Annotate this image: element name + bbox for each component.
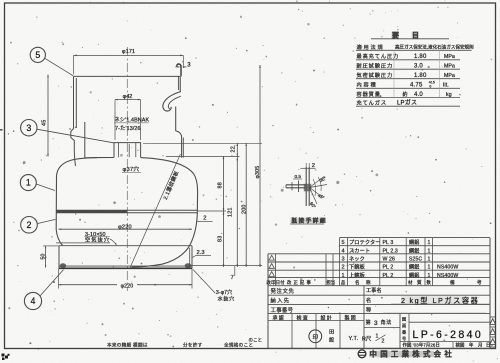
protector right lower wall and foot <box>176 107 182 158</box>
svg-text:83: 83 <box>218 236 224 242</box>
svg-text:PL 3: PL 3 <box>383 240 394 246</box>
svg-text:1: 1 <box>428 273 431 279</box>
svg-text:角法: 角法 <box>381 318 392 326</box>
svg-text:数: 数 <box>427 279 432 286</box>
svg-text:lit.: lit. <box>443 83 449 89</box>
label 2:1 head note (rotated) <box>130 154 181 269</box>
right edge triangle strip <box>490 317 496 347</box>
svg-text:LPガス: LPガス <box>397 99 417 107</box>
tank lower head (part 2) <box>132 214 198 267</box>
skirt bottom edge <box>59 265 192 267</box>
svg-text:φ220: φ220 <box>118 224 132 230</box>
svg-text:ネック: ネック <box>349 256 365 263</box>
svg-text:水抜穴: 水抜穴 <box>218 294 235 302</box>
protector foot inner lines <box>85 122 97 158</box>
svg-text:納入先: 納入先 <box>271 296 291 304</box>
svg-text:2: 2 <box>27 220 32 230</box>
svg-text:88: 88 <box>217 182 223 188</box>
svg-text:0.5: 0.5 <box>295 174 302 179</box>
svg-text:7: 7 <box>231 275 234 281</box>
svg-text:工事名: 工事名 <box>366 287 382 294</box>
svg-text:NS400W: NS400W <box>437 265 458 271</box>
stamp circle <box>309 330 322 343</box>
svg-text:要: 要 <box>392 31 399 40</box>
dimension φ305 (x=260) <box>259 65 261 267</box>
balloon 2 <box>21 217 38 234</box>
svg-text:中国工業株式会社: 中国工業株式会社 <box>370 350 456 359</box>
svg-text:kg: kg <box>446 92 452 98</box>
svg-text:約: 約 <box>403 91 408 98</box>
vertical dimension 45 left <box>47 75 49 157</box>
svg-text:称: 称 <box>366 305 371 313</box>
dimension φ220 mid <box>59 228 193 230</box>
svg-text:気密試験圧力: 気密試験圧力 <box>357 71 394 79</box>
protector (part 5) outline <box>74 75 181 77</box>
svg-text:NS400W: NS400W <box>437 273 458 279</box>
centerline of container <box>126 47 128 291</box>
svg-text:1: 1 <box>26 178 31 188</box>
svg-text:PL 2: PL 2 <box>383 273 394 279</box>
svg-text:2: 2 <box>382 339 385 345</box>
svg-text:発注文先: 発注文先 <box>271 287 295 295</box>
svg-text:2: 2 <box>312 163 315 169</box>
dimension φ220 bottom <box>58 269 60 289</box>
svg-text:4: 4 <box>342 248 345 254</box>
weld detail horizontal plate <box>286 184 306 186</box>
svg-text:最高充てん圧力: 最高充てん圧力 <box>357 52 400 60</box>
weld detail vertical plate <box>305 167 307 206</box>
svg-text:本来の精細 模糊は: 本来の精細 模糊は <box>107 341 148 348</box>
right side extension lines <box>143 142 262 144</box>
svg-text:高圧ガス保安法,液化石油ガス保安規則: 高圧ガス保安法,液化石油ガス保安規則 <box>395 44 474 51</box>
svg-text:印: 印 <box>312 334 318 341</box>
balloon 5 <box>30 47 45 62</box>
skirt weld corner right / drain hole <box>185 263 192 268</box>
weld fillet <box>304 184 311 192</box>
svg-text:鋼鈱: 鋼鈱 <box>409 239 419 246</box>
svg-text:4.0: 4.0 <box>414 92 423 98</box>
balloon 4 <box>24 292 41 309</box>
svg-text:備: 備 <box>450 279 455 286</box>
svg-text:下鏡板: 下鏡板 <box>349 263 366 271</box>
svg-text:スカート: スカート <box>349 247 370 254</box>
svg-text:φ220: φ220 <box>121 284 134 290</box>
svg-text:1: 1 <box>428 265 431 271</box>
svg-text:50: 50 <box>40 254 46 260</box>
svg-text:5: 5 <box>342 240 345 246</box>
svg-text:プロテクター: プロテクター <box>349 238 381 246</box>
svg-text:4: 4 <box>31 296 36 306</box>
svg-text:質: 質 <box>417 279 422 286</box>
svg-text:内容積: 内容積 <box>357 81 378 89</box>
svg-text:45: 45 <box>42 120 48 126</box>
svg-text:22: 22 <box>231 146 237 152</box>
protector handle hook <box>163 92 181 112</box>
tank right wall <box>196 191 198 214</box>
svg-text:2: 2 <box>203 216 206 222</box>
svg-text:7-た'13/26: 7-た'13/26 <box>115 125 141 132</box>
dimension 200 (x=246) <box>245 143 247 267</box>
svg-text:材: 材 <box>408 279 413 285</box>
svg-text:容器質量: 容器質量 <box>357 90 381 98</box>
svg-text:名: 名 <box>355 279 360 286</box>
svg-text:W 26: W 26 <box>383 257 396 263</box>
skirt (part 4) <box>59 245 192 247</box>
svg-text:充てんガス: 充てんガス <box>357 99 387 107</box>
balloon 1 <box>20 175 36 191</box>
girth weld seam <box>56 209 197 211</box>
svg-text:適用法規: 適用法規 <box>357 43 385 51</box>
label 3-φ7 drain holes <box>193 270 215 294</box>
svg-text:LP-6-2840: LP-6-2840 <box>413 329 484 341</box>
svg-text:1: 1 <box>342 273 345 279</box>
protector right wall and rolled lip <box>177 64 181 76</box>
svg-text:耐圧試験圧力: 耐圧試験圧力 <box>357 62 394 70</box>
svg-text:年: 年 <box>469 342 474 349</box>
dimension 22 and 121 (x=237) <box>236 143 238 267</box>
svg-text:PL 2: PL 2 <box>383 265 394 271</box>
svg-text:3: 3 <box>374 320 378 327</box>
svg-text:φ42: φ42 <box>123 94 133 100</box>
svg-text:1.80: 1.80 <box>414 73 427 79</box>
tank left wall <box>56 176 62 246</box>
corner mark bottom left <box>2 354 10 361</box>
svg-text:検査: 検査 <box>297 314 309 321</box>
weld detail leaders and angles <box>310 177 325 188</box>
svg-text:3.0: 3.0 <box>414 64 423 70</box>
svg-text:MPa: MPa <box>444 64 455 70</box>
weld detail label 胴接手詳細 <box>291 218 325 223</box>
svg-text:3: 3 <box>342 257 345 263</box>
svg-text:作図 '03年7月26日: 作図 '03年7月26日 <box>403 342 440 349</box>
title block and parts list grid <box>268 238 490 349</box>
company logo <box>358 350 366 358</box>
svg-text:1: 1 <box>428 248 431 254</box>
svg-text:第: 第 <box>366 318 371 326</box>
svg-text:5: 5 <box>35 50 40 60</box>
svg-text:改正記事: 改正記事 <box>287 279 313 286</box>
svg-text:2: 2 <box>342 265 345 271</box>
svg-text:4.75: 4.75 <box>410 83 423 89</box>
dimension 50 skirt height <box>45 246 47 268</box>
svg-text:製図: 製図 <box>345 314 357 321</box>
svg-text:S25C: S25C <box>409 257 422 263</box>
svg-text:1: 1 <box>428 240 431 246</box>
svg-text:承認: 承認 <box>273 314 285 321</box>
svg-text:全規格のこと: 全規格のこと <box>224 341 253 348</box>
svg-text:2 kg型 LPガス容器: 2 kg型 LPガス容器 <box>401 296 479 305</box>
svg-text:3-φ7穴: 3-φ7穴 <box>216 288 233 296</box>
svg-text:設計: 設計 <box>321 314 333 321</box>
svg-text:1.80: 1.80 <box>414 54 427 60</box>
svg-text:検図: 検図 <box>456 342 465 349</box>
dimension 88 and 83 (x=223.5) <box>223 156 225 267</box>
svg-text:称: 称 <box>366 279 371 286</box>
svg-text:121: 121 <box>228 207 234 217</box>
spec table column dividers <box>393 50 395 97</box>
svg-text:鋼鈱: 鋼鈱 <box>409 247 419 254</box>
svg-text:担当: 担当 <box>327 279 336 286</box>
svg-text:R尺: R尺 <box>362 336 372 343</box>
svg-text:MPa: MPa <box>444 73 455 79</box>
svg-text:空気抜穴: 空気抜穴 <box>85 235 110 243</box>
neck (part 3) <box>114 143 141 158</box>
svg-text:φ171: φ171 <box>122 49 135 55</box>
balloon 3 <box>21 120 37 136</box>
spec table title 要目 <box>392 32 399 38</box>
svg-text:上鏡板: 上鏡板 <box>349 271 366 279</box>
dimension 3 (lip) <box>175 66 180 68</box>
skirt weld corner left <box>60 263 66 268</box>
svg-text:名: 名 <box>366 296 371 304</box>
svg-text:設: 設 <box>329 336 334 344</box>
dimension φ42 neck <box>115 99 141 101</box>
tank upper head (part 1) <box>57 158 115 177</box>
svg-text:田: 田 <box>329 329 334 336</box>
svg-text:胝接手詳細: 胝接手詳細 <box>292 217 327 225</box>
weld detail dim 2 <box>301 167 316 169</box>
revision triangles <box>269 255 274 276</box>
svg-text:3: 3 <box>26 123 31 133</box>
svg-text:φ37穴: φ37穴 <box>123 165 140 173</box>
svg-text:PL 2.3: PL 2.3 <box>383 248 398 254</box>
svg-text:分を許す: 分を許す <box>183 341 203 348</box>
svg-text:工事番号: 工事番号 <box>271 306 294 314</box>
svg-text:鋼鈱: 鋼鈱 <box>409 264 419 271</box>
svg-text:Y.T.: Y.T. <box>349 336 359 342</box>
svg-text:φ305: φ305 <box>255 166 261 179</box>
svg-text:200: 200 <box>241 204 247 214</box>
svg-text:改印日付: 改印日付 <box>267 279 286 286</box>
svg-text:1: 1 <box>376 334 379 340</box>
dimension φ171 top <box>74 54 184 56</box>
svg-text:1: 1 <box>428 257 431 263</box>
svg-text:MPa: MPa <box>444 54 455 60</box>
left margin tick <box>0 129 3 131</box>
svg-text:鋼鈱: 鋼鈱 <box>409 272 419 279</box>
company name 中国工業株式会社 <box>369 351 434 357</box>
